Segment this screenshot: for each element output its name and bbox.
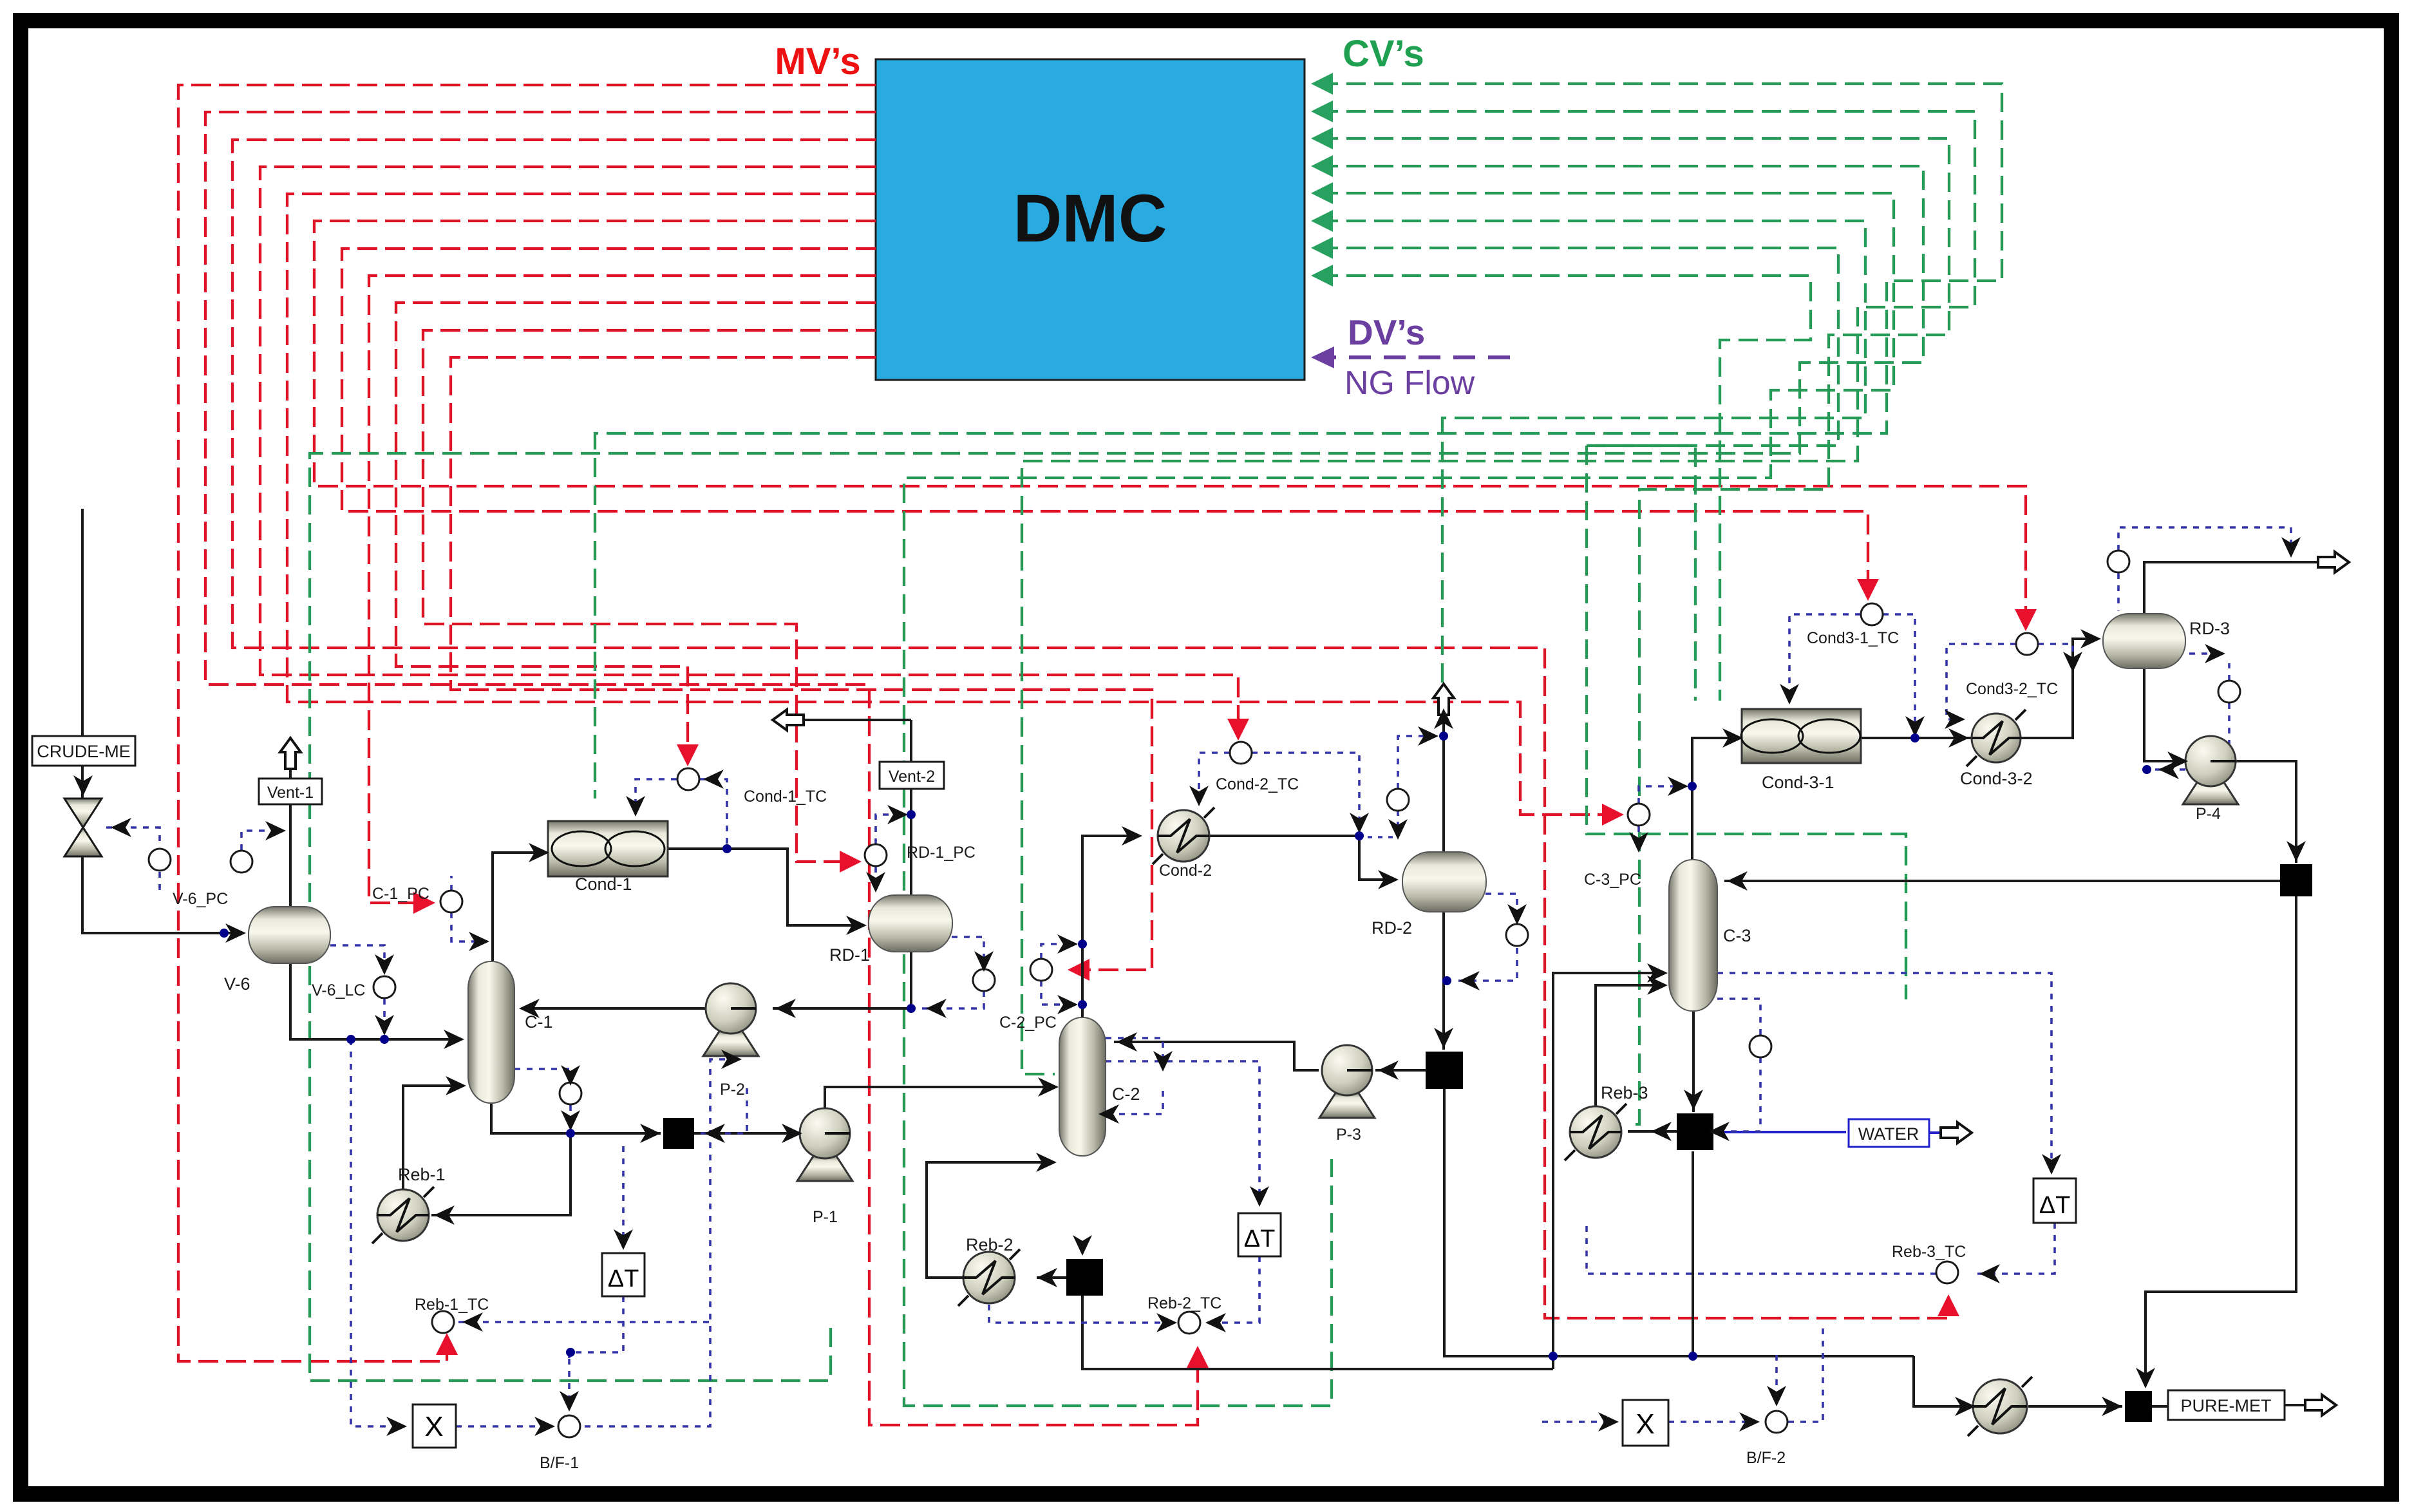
- signal: dT-3 to Reb-3_TC: [1976, 1223, 2055, 1274]
- svg-text:C-1: C-1: [525, 1012, 553, 1032]
- signal: dT-2 feed: [1106, 1061, 1259, 1203]
- node dT-1 box: [602, 1253, 645, 1296]
- MV line 10 to RD-1_PC: [423, 330, 876, 862]
- instrument C-1 bottoms level: [560, 1082, 581, 1104]
- reboiler Reb-2: [958, 1235, 1020, 1306]
- svg-text:Reb-3: Reb-3: [1601, 1083, 1648, 1102]
- signal: C-3 lower stub: [1717, 999, 1760, 1035]
- svg-text:V-6_PC: V-6_PC: [173, 890, 228, 908]
- wire: C-1 bottoms header: [491, 1102, 661, 1133]
- svg-text:P-4: P-4: [2196, 805, 2221, 823]
- instrument V-6_PC: [149, 849, 171, 871]
- MV line 3 to Reb-3_TC: [232, 140, 1948, 1318]
- signal: RD-1_PC: [876, 815, 904, 844]
- wire: RD-2 vent riser: [1442, 692, 1445, 853]
- instrument RD-2 level: [1506, 924, 1528, 946]
- CV line 2 from C-2 feed: [1022, 111, 1975, 1074]
- signal: RD-3 vent controller: [2118, 527, 2291, 555]
- svg-text:Cond-1: Cond-1: [575, 874, 632, 894]
- node Vent-2: [773, 710, 944, 789]
- svg-text:CRUDE-ME: CRUDE-ME: [37, 742, 131, 761]
- svg-text:Cond-2_TC: Cond-2_TC: [1216, 775, 1299, 793]
- instrument Reb-2_TC: [1178, 1312, 1200, 1334]
- node X-1 multiplier: [413, 1404, 456, 1448]
- wire: C-1 bottoms to Reb-1: [431, 1133, 570, 1215]
- wire: product run down right side: [2145, 896, 2296, 1386]
- svg-text:RD-1_PC: RD-1_PC: [907, 844, 976, 862]
- wire: water line: [1709, 1131, 1846, 1133]
- valve RD-2 bottoms (black square): [1426, 1052, 1463, 1089]
- exchanger Cond-2: [1153, 808, 1214, 880]
- svg-text:X: X: [1636, 1408, 1654, 1440]
- svg-text:B/F-2: B/F-2: [1746, 1449, 1786, 1467]
- instrument B/F-2: [1766, 1411, 1787, 1433]
- wire: RD-2 distillate down to C-3 feed riser: [1444, 1089, 1914, 1356]
- svg-text:DMC: DMC: [1013, 181, 1167, 256]
- instrument RD-3 vent controller: [2108, 551, 2129, 572]
- wire: Cond-1 outlet to RD-1: [668, 849, 863, 925]
- signal: V-6_LC: [330, 945, 384, 976]
- reboiler Reb-3: [1565, 1083, 1648, 1160]
- wire: C-3 bottoms product: [1692, 1151, 1694, 1356]
- column C-2: [1059, 1017, 1140, 1156]
- signal: Reb-1_TC feed: [458, 1321, 710, 1323]
- svg-text:RD-2: RD-2: [1372, 918, 1412, 938]
- instrument RD-1 level controller: [973, 969, 995, 991]
- svg-text:V-6: V-6: [224, 974, 250, 994]
- signal: C-2_PC: [1041, 944, 1074, 959]
- svg-text:Cond3-2_TC: Cond3-2_TC: [1966, 680, 2058, 698]
- valve C-3 bottoms (black square): [1677, 1113, 1713, 1150]
- signal: dT-1 chain: [622, 1146, 625, 1246]
- instrument near C-2 top / C-2_PC: [1030, 959, 1052, 981]
- svg-text:ΔT: ΔT: [1244, 1225, 1276, 1252]
- signal: B/F-2 wiring: [1542, 1421, 1615, 1423]
- wire: valve to P-1: [694, 1132, 798, 1135]
- svg-text:CV’s: CV’s: [1343, 33, 1424, 75]
- wire: Cond-3-2 to RD-3: [2021, 639, 2097, 738]
- svg-text:ΔT: ΔT: [2039, 1192, 2071, 1219]
- MV line 9 to Cond-1_TC: [396, 303, 876, 749]
- svg-text:DV’s: DV’s: [1348, 312, 1425, 352]
- node dT-3 box: [2033, 1178, 2076, 1223]
- svg-text:NG Flow: NG Flow: [1344, 364, 1475, 402]
- svg-text:Reb-3_TC: Reb-3_TC: [1892, 1243, 1966, 1261]
- wire: Cond-3-1 to Cond-3-2: [1861, 737, 1972, 739]
- signal: Cond-1_TC: [636, 779, 677, 813]
- DV NG Flow dashed arrow: [1317, 355, 1510, 359]
- node WATER label: [1849, 1119, 1972, 1147]
- vessel RD-2 reflux drum: [1372, 684, 1486, 938]
- signal: Cond-2_TC: [1199, 753, 1230, 804]
- svg-text:RD-1: RD-1: [829, 945, 870, 965]
- node CRUDE-ME feed label: [32, 736, 135, 766]
- CV line 7 from C-3 area: [1319, 248, 1906, 999]
- signal: valve at C-1 bottoms: [701, 1088, 747, 1133]
- CV line 4 from dT-1 / B-F-1 area: [310, 166, 1923, 1381]
- MV line 2 to Reb-2_TC: [205, 112, 1198, 1425]
- svg-text:Vent-1: Vent-1: [267, 784, 314, 802]
- wire: Reb-1 return to C-1: [403, 1086, 461, 1191]
- instrument Cond-1_TC: [677, 768, 699, 790]
- valve product (black square): [2125, 1391, 2152, 1422]
- wire: RD-2 bottoms to valve: [1442, 912, 1445, 1050]
- signal: C-1 bottoms level circle: [514, 1069, 570, 1082]
- node Vent-1: [259, 738, 322, 804]
- svg-text:C-2_PC: C-2_PC: [999, 1014, 1057, 1032]
- instrument RD-3 level: [2218, 681, 2240, 703]
- valve C-2 bottoms (black square): [1066, 1259, 1103, 1296]
- wire: valve to PURE-MET: [2151, 1405, 2168, 1408]
- pump P-2: [703, 983, 759, 1099]
- MV line 4 to Cond-2_TC: [260, 167, 1238, 723]
- svg-text:C-3_PC: C-3_PC: [1584, 871, 1641, 889]
- svg-text:Vent-2: Vent-2: [889, 768, 935, 786]
- pump P-4: [2183, 736, 2238, 823]
- svg-text:P-2: P-2: [720, 1081, 745, 1099]
- signal: RD-3 level: [2189, 652, 2221, 655]
- signal: RD-2 top controller: [1398, 736, 1435, 789]
- svg-text:P-1: P-1: [813, 1208, 838, 1226]
- wire: valve to Reb-3: [1628, 1130, 1677, 1133]
- instrument RD-1_PC: [865, 844, 887, 866]
- instrument C-3 level: [1749, 1035, 1771, 1057]
- svg-text:MV’s: MV’s: [775, 41, 860, 82]
- pump P-1: [797, 1108, 853, 1226]
- wire: P-2 discharge reflux to C-1: [522, 1007, 706, 1010]
- instrument C-1_PC: [440, 891, 462, 912]
- instrument B/F-1: [558, 1415, 580, 1437]
- svg-text:Cond3-1_TC: Cond3-1_TC: [1807, 629, 1899, 647]
- green arrowheads entering DMC: [1311, 73, 1333, 95]
- signal: Cond3-2_TC: [1947, 644, 2016, 719]
- instrument Reb-1_TC: [432, 1311, 454, 1333]
- signal: C-2 bottoms level: [1106, 1038, 1163, 1069]
- valve reflux to C-3 (black square): [2280, 864, 2312, 896]
- wire: C-3 bottoms: [1692, 1010, 1695, 1112]
- svg-text:Cond-3-2: Cond-3-2: [1960, 769, 2033, 788]
- svg-text:RD-3: RD-3: [2189, 619, 2230, 638]
- signal: B/F-1 wiring: [351, 1039, 403, 1426]
- column C-1: [468, 961, 553, 1103]
- wire: valve to V-6: [82, 856, 241, 933]
- MV line 8 to C-1_PC: [369, 276, 876, 903]
- MV line 11 to C-2_PC: [451, 357, 1152, 970]
- CV line 1 from Cond-1 area: [595, 84, 2002, 799]
- wire: reflux valve to C-3: [1724, 880, 2280, 882]
- wire: vent-2 line: [787, 719, 911, 721]
- svg-text:C-2: C-2: [1112, 1084, 1140, 1104]
- svg-text:Reb-2: Reb-2: [966, 1235, 1014, 1254]
- svg-text:C-3: C-3: [1723, 926, 1751, 945]
- svg-text:WATER: WATER: [1858, 1124, 1919, 1144]
- wire: valve to P-3: [1375, 1069, 1426, 1072]
- wire: C-3 overhead riser to Cond-3-1: [1692, 738, 1739, 861]
- wire: crude feed line: [81, 509, 84, 736]
- wire: Cond-2 outlet to RD-2: [1209, 836, 1395, 880]
- valve C-1 bottoms (black square): [663, 1118, 694, 1149]
- svg-text:Cond-2: Cond-2: [1159, 862, 1212, 880]
- instrument Cond3-1_TC: [1861, 603, 1883, 625]
- signal: Reb-2_TC wiring: [1211, 1256, 1259, 1323]
- node dT-2 box: [1238, 1213, 1281, 1256]
- svg-text:Reb-1_TC: Reb-1_TC: [415, 1296, 489, 1314]
- signal: feed valve / V-6_PC: [106, 827, 160, 847]
- vessel RD-1 reflux drum: [829, 895, 952, 965]
- svg-text:PURE-MET: PURE-MET: [2181, 1396, 2272, 1415]
- instrument C-3_PC: [1628, 804, 1650, 826]
- condenser Cond-1: [548, 821, 668, 894]
- exchanger Cond-3-2: [1960, 710, 2033, 788]
- red arrowheads at MV targets: [436, 1333, 458, 1355]
- pump P-3: [1319, 1045, 1375, 1144]
- instrument V-6_LC: [373, 976, 395, 998]
- signal: C-1_PC to riser: [451, 912, 486, 941]
- svg-text:C-1_PC: C-1_PC: [372, 885, 429, 903]
- wire: C-3 feed riser: [1553, 973, 1664, 1369]
- CV line 9: [1587, 446, 1695, 701]
- wire: C-2 overhead riser to Cond-2: [1082, 836, 1140, 1019]
- MV line 7 to Cond3-1_TC: [342, 249, 1868, 581]
- signal: C-3_PC: [1639, 786, 1684, 804]
- CV line 6 from RD-2 vent: [1319, 221, 1865, 688]
- svg-text:Cond-1_TC: Cond-1_TC: [744, 788, 827, 806]
- MV line 6 to Cond3-2_TC: [314, 221, 2026, 612]
- CV line 3 from Reb-3: [1319, 138, 1949, 1124]
- CV line 8 to Cond-3-1: [1319, 276, 1811, 701]
- svg-text:Reb-1: Reb-1: [398, 1165, 446, 1184]
- condenser Cond-3-1: [1741, 709, 1861, 792]
- signal: RD-2 level: [1485, 894, 1517, 922]
- vessel RD-3 reflux drum: [2103, 552, 2349, 668]
- wire: C-2 bottoms header: [1082, 1296, 1553, 1369]
- node PURE-MET label: [2168, 1390, 2336, 1420]
- instrument Cond-2_TC: [1230, 742, 1252, 764]
- vessel V-6 flash drum: [224, 907, 330, 994]
- CV line 5 from dT-2 area: [904, 193, 1894, 1406]
- svg-text:B/F-1: B/F-1: [540, 1454, 579, 1472]
- wire: Reb-3 return to C-3: [1596, 985, 1665, 1108]
- wire: P-1 discharge to C-2 feed: [825, 1087, 1056, 1111]
- reboiler Reb-1: [372, 1165, 446, 1243]
- svg-text:Reb-2_TC: Reb-2_TC: [1147, 1294, 1221, 1312]
- signal: Cond3-1_TC: [1789, 614, 1861, 702]
- wire: vent-1 riser: [289, 760, 292, 779]
- DMC controller box: [876, 59, 1305, 380]
- svg-text:Cond-3-1: Cond-3-1: [1762, 773, 1834, 792]
- wire: cooler to product valve: [2028, 1405, 2122, 1408]
- wire: P-4 discharge: [2232, 761, 2296, 863]
- svg-text:P-3: P-3: [1336, 1126, 1361, 1144]
- signal: C-3 side to dT-3: [1717, 973, 2051, 1172]
- instrument Reb-3_TC: [1936, 1262, 1958, 1283]
- signal: Reb-3_TC left run: [1587, 1225, 1936, 1274]
- wire: RD-1 bottoms to P-2: [773, 951, 911, 1008]
- instrument RD-2 top controller: [1387, 789, 1409, 811]
- wire: C-1 overhead riser to Cond-1: [493, 853, 544, 961]
- node X-2 multiplier: [1623, 1400, 1668, 1446]
- wire: C-2 reboiler loop: [927, 1162, 1066, 1278]
- signal: RD-1 level: [952, 937, 984, 969]
- MV line 1 to Reb-1_TC: [178, 85, 876, 1361]
- exchanger product cooler: [1968, 1377, 2032, 1436]
- wire: P-3 discharge reflux to C-2: [1114, 1042, 1319, 1070]
- instrument Cond3-2_TC: [2016, 633, 2038, 655]
- valve feed control valve (bowtie): [64, 799, 102, 856]
- MV line 5 to C-3_PC: [287, 194, 1607, 815]
- wire: V-6 bottoms to C-1 feed: [290, 962, 459, 1039]
- wire: RD-3 vent line: [2144, 562, 2336, 615]
- svg-text:ΔT: ΔT: [608, 1265, 639, 1292]
- svg-text:X: X: [424, 1411, 443, 1442]
- wire: RD-3 bottoms to P-4: [2144, 668, 2184, 761]
- column C-3: [1669, 860, 1751, 1011]
- svg-text:V-6_LC: V-6_LC: [312, 981, 365, 999]
